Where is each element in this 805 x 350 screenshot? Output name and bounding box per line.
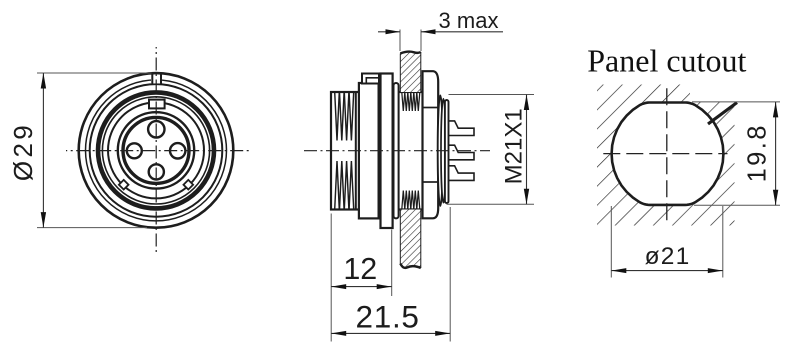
circle D r53.6 — [102, 97, 209, 204]
panel upper side lines — [399, 54, 401, 93]
ext line left — [399, 30, 401, 52]
ext line left shared — [330, 214, 332, 342]
panel lower side lines — [399, 210, 401, 264]
panel hatched lower part — [400, 210, 421, 269]
rear insulator disc — [445, 100, 449, 203]
dimension Ø21 — [611, 206, 723, 278]
arrow right — [377, 284, 392, 289]
top notch erase — [151, 74, 161, 83]
solder tail middle — [448, 145, 474, 160]
top notch right wall — [160, 73, 162, 84]
nut facet line upper — [423, 107, 439, 109]
ext line left — [610, 206, 612, 278]
ext line bottom — [447, 203, 535, 205]
barrel outline — [331, 92, 438, 210]
circle E r48 — [108, 102, 204, 198]
solder tail top — [448, 121, 474, 136]
dim line Ø21 — [611, 270, 723, 272]
dim line 21.5 — [331, 332, 450, 334]
svg-text:Ø29: Ø29 — [8, 122, 38, 181]
hatched panel — [597, 85, 735, 226]
cutout horizontal centerline — [603, 153, 727, 155]
spring washer — [438, 96, 443, 206]
ext line right 21.5 — [449, 207, 451, 342]
dimension 3 max — [400, 30, 421, 52]
arrow down — [773, 190, 778, 206]
arrow down — [524, 189, 529, 205]
mounting flange — [381, 74, 393, 229]
rear thread spikes top — [402, 92, 420, 111]
svg-text:Panel cutout: Panel cutout — [587, 43, 746, 79]
gasket — [394, 83, 399, 218]
arrow left — [331, 284, 346, 289]
pin socket bottom — [149, 164, 164, 179]
cutout hole — [612, 103, 724, 205]
thick coupling ring C r58 — [98, 92, 214, 208]
ext line right — [722, 206, 724, 278]
ext line right — [420, 30, 422, 52]
solder tail bottom — [448, 166, 474, 181]
arrow right — [708, 268, 723, 273]
hex nut — [423, 71, 439, 218]
arrow left — [331, 331, 346, 336]
dim line 3max left — [378, 31, 400, 33]
arrow left-pointing — [421, 29, 436, 34]
master key rectangle at top — [149, 100, 165, 109]
dim line 19.8 — [775, 102, 777, 205]
ext line bottom — [37, 227, 147, 229]
arrow down — [41, 212, 46, 228]
ext line top — [449, 94, 535, 96]
pin socket top — [148, 121, 164, 137]
svg-text:21.5: 21.5 — [356, 298, 420, 334]
shell circle B r66.3 — [90, 84, 223, 217]
rear thread spikes bottom — [402, 191, 420, 210]
arrow up — [524, 95, 529, 111]
arrow right — [435, 331, 450, 336]
thick break diagonal — [708, 103, 737, 125]
nut facet line lower — [423, 181, 439, 183]
thread runout edge — [355, 92, 357, 210]
dim line 3max right — [421, 31, 503, 33]
insert face circle r33 — [123, 117, 189, 183]
front view horizontal centerline — [66, 150, 249, 152]
panel upper break edge — [400, 52, 421, 54]
keyway diamond lower-left — [119, 180, 129, 190]
ext line bottom — [694, 204, 780, 206]
cutout vertical centerline — [666, 88, 668, 221]
svg-text:19.8: 19.8 — [744, 123, 772, 182]
svg-text:12: 12 — [343, 252, 377, 286]
pin socket right — [170, 143, 185, 158]
dim line 12 — [331, 286, 392, 288]
dim line Ø29 — [42, 73, 44, 228]
svg-text:M21X1: M21X1 — [500, 108, 527, 184]
front thread spikes bottom — [335, 161, 354, 210]
body section — [359, 83, 379, 218]
insert outer circle F r38.2 — [118, 112, 194, 188]
pin socket left — [127, 143, 142, 158]
arrow right-pointing — [386, 29, 401, 34]
keyway diamond lower-right — [183, 180, 193, 190]
panel hatched upper part — [400, 52, 421, 92]
retaining tab — [362, 74, 379, 84]
flat washer — [441, 99, 446, 203]
dimension M21X1 — [447, 95, 535, 205]
retaining tab inner step — [366, 78, 379, 84]
dimension Ø29 — [37, 73, 152, 228]
front thread spikes top — [335, 92, 354, 141]
panel lower break edge — [400, 264, 421, 269]
ext line right — [391, 230, 393, 297]
svg-text:ø21: ø21 — [645, 243, 691, 270]
outermost circle r77.3 — [79, 73, 234, 228]
dimension 19.8 — [692, 102, 780, 205]
dimension 12 — [331, 214, 392, 342]
arrow up — [773, 102, 778, 118]
svg-text:3 max: 3 max — [439, 8, 499, 33]
ext line top — [37, 72, 152, 74]
arrow up — [41, 73, 46, 89]
front view vertical centerline — [155, 47, 157, 253]
arrow left — [611, 268, 626, 273]
ext line top — [692, 101, 780, 103]
side view centerline — [304, 150, 490, 152]
top notch left wall — [151, 73, 153, 84]
dim line M21X1 — [526, 95, 528, 205]
outer shell circle A2 r70.5 — [86, 80, 227, 221]
